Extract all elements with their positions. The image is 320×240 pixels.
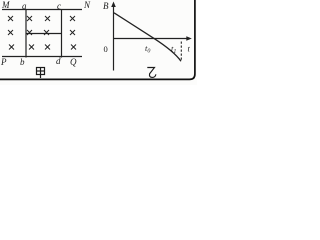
arrowhead t axis — [186, 36, 192, 40]
background — [0, 0, 197, 85]
caption jia (first) — [37, 68, 45, 79]
field symbol x row3 — [9, 45, 76, 50]
wire top boundary MN — [2, 9, 82, 11]
svg-text:d: d — [56, 56, 61, 66]
svg-text:N: N — [83, 0, 91, 10]
wire left rail a-b — [25, 9, 27, 58]
svg-text:B: B — [103, 1, 109, 11]
svg-text:a: a — [22, 1, 27, 11]
graph line B(t) — [114, 13, 181, 61]
field symbol x row1 — [8, 16, 75, 21]
svg-text:Q: Q — [70, 57, 77, 67]
wire crossbar — [26, 33, 62, 35]
caption yi (second) — [147, 68, 156, 78]
border bottom and right with rounded corner — [0, 0, 195, 79]
svg-text:b: b — [20, 57, 25, 67]
axis t horizontal — [114, 38, 190, 40]
svg-text:c: c — [57, 1, 61, 11]
svg-text:P: P — [0, 57, 7, 67]
arrowhead B axis — [111, 2, 116, 8]
svg-text:M: M — [1, 0, 10, 10]
dashed line at t1 — [180, 42, 182, 62]
axis B vertical — [113, 4, 115, 71]
field symbol x row2 — [8, 30, 75, 35]
svg-text:0: 0 — [104, 44, 108, 54]
wire right rail c-d — [61, 9, 63, 58]
wire bottom boundary PQ — [2, 56, 82, 58]
